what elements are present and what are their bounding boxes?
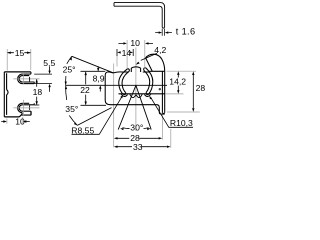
bottom plate line [21,113,23,115]
part top notch to boss [113,71,129,74]
hook jaw ticks [29,77,31,110]
cradle scallops [121,94,151,98]
10 dim bottom left view [1,121,30,123]
top edge ext left [81,70,106,72]
bottom hook inner arc [19,105,22,111]
L profile bottom end cap [162,26,164,29]
flange top edge [149,70,164,72]
top hook inner arc [19,76,22,82]
arc arrows [65,56,78,125]
bottom edge left [4,115,21,117]
left slot end caps [123,69,129,95]
part outline left [105,72,165,114]
svg-text:25°: 25° [63,64,76,74]
horizontal centerline [66,84,167,86]
angle arc 25 [66,56,72,85]
left wall outer [3,72,5,117]
V line left 30 [118,85,136,129]
left slot inner arc [122,71,129,92]
14,2 dim right [165,71,196,94]
angle arc 35 [66,85,78,125]
svg-text:14,2: 14,2 [169,77,186,87]
long ext line left [113,64,115,148]
R8.55 leader [72,97,123,135]
svg-text:R10,3: R10,3 [170,118,193,128]
10 dim top [118,42,153,44]
bottom edge ext left [81,104,107,106]
svg-text:t 1.6: t 1.6 [176,27,196,37]
bottom edge right [21,111,31,115]
central slit [131,67,140,72]
L profile inner [114,6,162,27]
5,5 arrows [49,67,51,92]
bottom hook centerlines [13,100,39,116]
flange bottom cap [162,112,164,115]
svg-text:28: 28 [196,83,206,93]
top hook upper lip [22,73,31,75]
bottom hook right cap [30,111,32,114]
15 dim line [7,52,30,54]
svg-text:30°: 30° [130,123,143,133]
28 dim right [167,111,200,113]
8,9 tick and arrow [97,66,99,71]
4,2 leader [141,53,157,60]
raised tab [146,54,165,71]
L profile left end cap [113,3,115,7]
bottom hook outer arc [18,103,23,113]
vertical centerline [135,48,137,132]
V line right 30 [136,85,151,129]
right slot outer arc [146,68,153,95]
svg-text:14: 14 [122,48,132,58]
22 dim [85,72,87,105]
14 dim [117,49,133,56]
left wall inner [6,73,8,115]
left view top edge [4,71,31,73]
right slot end caps [144,68,149,95]
R10,3 leader [151,98,193,127]
bottom hook outer top lip [22,102,29,104]
bottom hook inner lower lip [22,110,31,112]
svg-text:22: 22 [80,85,90,95]
left slot outer arc [119,69,128,95]
lower chord [119,93,166,95]
18 dim [36,79,38,104]
5,5 ref lines [34,74,52,84]
svg-text:15: 15 [15,48,25,58]
30 dim arc [123,128,149,129]
svg-text:10: 10 [130,38,140,48]
flange right double line [162,71,164,113]
33 bottom dim [118,146,167,148]
svg-text:18: 18 [33,87,43,97]
25 deg line [72,56,114,73]
top hook centerlines [13,74,39,85]
svg-text:5,5: 5,5 [43,58,55,68]
flange dot [159,88,161,90]
svg-text:8,9: 8,9 [93,73,105,83]
svg-text:33: 33 [133,142,143,152]
svg-text:R8.55: R8.55 [71,126,94,136]
top edge right segment [143,71,150,73]
svg-text:35°: 35° [65,104,78,114]
svg-text:4,2: 4,2 [154,45,166,55]
t1.6 ext lines [162,29,164,36]
top hook right cap [30,72,32,74]
35 deg line [77,108,111,126]
wall bump [7,90,9,95]
top hook lower lip [22,83,34,85]
bottom hook ref ext [34,104,39,106]
top hook inner lips [22,76,34,82]
t1.6 dim arrows [155,32,172,34]
top hook outer arc [18,74,23,84]
hook lip caps [33,82,35,105]
15 ext lines [7,49,31,71]
28 bottom dim [118,137,159,139]
right slot inner arc [144,70,150,92]
svg-text:10: 10 [15,117,25,127]
L profile outer [114,3,165,28]
bottom hook upper lip [22,104,34,106]
